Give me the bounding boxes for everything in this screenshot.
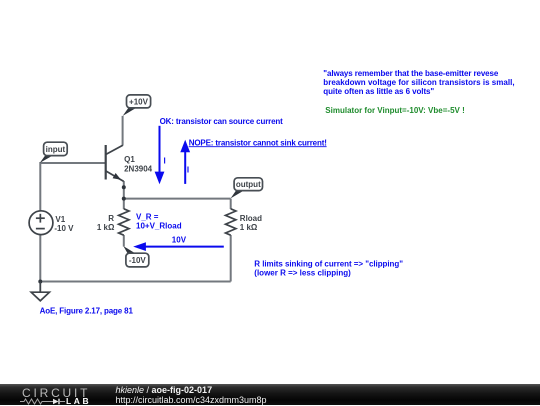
svg-text:R: R (108, 214, 114, 223)
svg-text:I: I (164, 156, 166, 165)
svg-text:1 kΩ: 1 kΩ (97, 223, 115, 232)
wire R bottom lead (123, 235, 125, 247)
voltage source V1 (29, 211, 53, 235)
wire bottom horizontal (40, 281, 230, 283)
svg-text:R limits sinking of current =>: R limits sinking of current => "clipping… (254, 259, 403, 268)
flag -10V (123, 246, 148, 267)
flag +10V (123, 95, 151, 116)
arrow I down (source current) (155, 126, 165, 185)
svg-text:I: I (187, 166, 189, 175)
svg-text:-10V: -10V (129, 256, 147, 265)
flag input (40, 142, 67, 163)
svg-text:quite often as little as 6 vol: quite often as little as 6 volts" (323, 87, 434, 96)
wire mid horizontal to output (124, 198, 231, 200)
wire left vertical lower (39, 235, 41, 283)
underline NOPE (189, 146, 327, 148)
svg-text:"always remember that the base: "always remember that the base-emitter r… (323, 69, 499, 78)
svg-text:1 kΩ: 1 kΩ (240, 223, 258, 232)
svg-text:NOPE: transistor cannot sink c: NOPE: transistor cannot sink current! (189, 138, 327, 147)
svg-text:V1: V1 (55, 215, 65, 224)
wire input horizontal (40, 162, 105, 164)
transistor Q1 (106, 145, 124, 181)
svg-text:-10 V: -10 V (54, 224, 74, 233)
junction dot node (122, 197, 126, 201)
svg-text:OK: transistor can source curr: OK: transistor can source current (160, 117, 284, 126)
arrow I up (sink current) (180, 140, 190, 184)
junction dot emitter (122, 185, 126, 189)
logo squiggle (20, 398, 66, 405)
svg-text:(lower R => less clipping): (lower R => less clipping) (254, 269, 351, 278)
svg-text:input: input (46, 145, 66, 154)
footer credit line (116, 385, 213, 395)
logo CIRCUIT (22, 386, 90, 400)
svg-text:2N3904: 2N3904 (124, 164, 153, 173)
svg-text:Simulator for Vinput=-10V: Vbe: Simulator for Vinput=-10V: Vbe=-5V ! (325, 106, 464, 115)
wire emitter to R (123, 181, 125, 209)
resistor Rload (226, 209, 236, 235)
svg-text:Q1: Q1 (124, 155, 135, 164)
flag output (231, 178, 263, 199)
emitter arrow (113, 173, 121, 180)
svg-text:AoE, Figure 2.17, page 81: AoE, Figure 2.17, page 81 (40, 307, 134, 316)
svg-text:10V: 10V (172, 235, 187, 244)
svg-text:output: output (236, 180, 261, 189)
wire Rload bottom (230, 235, 232, 282)
arrow 10V left (133, 242, 224, 251)
resistor R (119, 209, 129, 235)
svg-text:V_R =: V_R = (136, 212, 159, 221)
footer url line (116, 395, 267, 405)
svg-text:10+V_Rload: 10+V_Rload (136, 222, 182, 231)
svg-text:breakdown voltage for silicon: breakdown voltage for silicon transistor… (323, 78, 514, 87)
wire collector vertical (122, 116, 124, 146)
footer bar (0, 384, 540, 405)
svg-text:Rload: Rload (240, 214, 262, 223)
ground (31, 282, 49, 301)
wire Rload top lead (230, 199, 232, 209)
wire left vertical upper (39, 162, 41, 211)
logo LAB (66, 396, 91, 406)
junction dot ground (38, 280, 42, 284)
svg-text:+10V: +10V (129, 97, 149, 106)
